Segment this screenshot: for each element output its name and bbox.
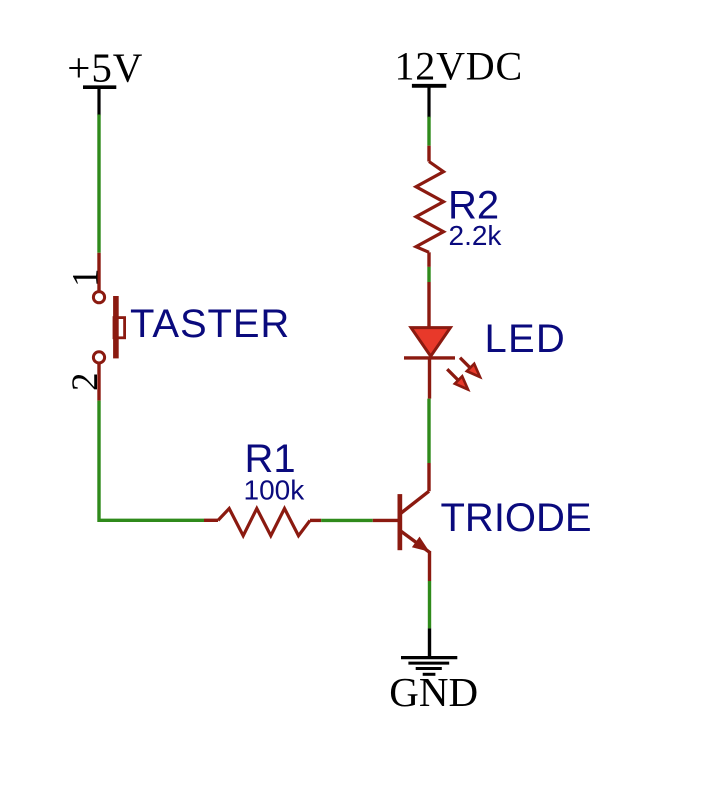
- svg-text:1: 1: [66, 269, 107, 288]
- svg-text:12VDC: 12VDC: [395, 44, 523, 89]
- svg-text:LED: LED: [485, 317, 566, 361]
- svg-text:2.2k: 2.2k: [449, 220, 503, 251]
- svg-text:TASTER: TASTER: [130, 302, 290, 346]
- svg-text:100k: 100k: [244, 475, 306, 506]
- svg-text:GND: GND: [389, 669, 478, 715]
- svg-text:TRIODE: TRIODE: [441, 496, 592, 540]
- svg-text:+5V: +5V: [67, 44, 143, 90]
